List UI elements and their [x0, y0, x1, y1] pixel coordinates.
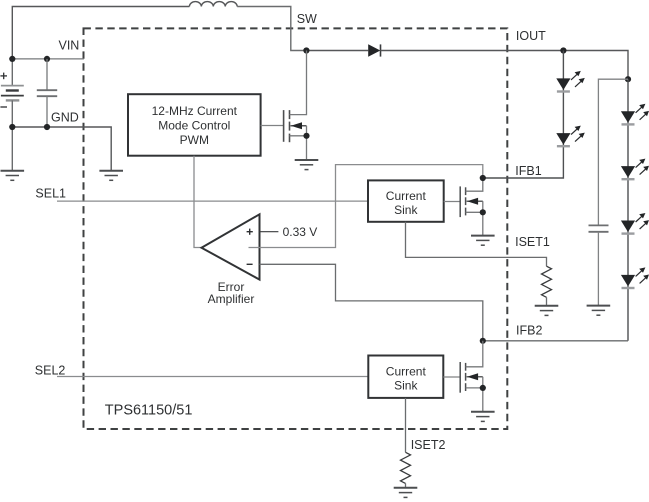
- wire IFB2: [483, 340, 628, 342]
- wire diode cathode to IOUT rail: [381, 51, 629, 80]
- svg-text:Current: Current: [386, 364, 427, 378]
- error amp plus sign: [247, 229, 253, 235]
- svg-text:Mode Control: Mode Control: [158, 119, 230, 133]
- wire M1 drain to SW: [290, 51, 307, 115]
- error amp minus sign: [247, 263, 253, 265]
- wire 0.33 V reference: [260, 231, 279, 233]
- node C1 GND: [44, 124, 50, 130]
- node IFB2: [480, 338, 486, 344]
- svg-text:VIN: VIN: [59, 38, 80, 52]
- LED D4: [621, 104, 649, 125]
- svg-text:12-MHz Current: 12-MHz Current: [152, 104, 238, 118]
- wire M2 drain to IFB1 node: [466, 178, 483, 191]
- battery plus sign: [0, 73, 7, 80]
- svg-text:PWM: PWM: [180, 133, 209, 147]
- M3 body arrow: [467, 376, 483, 378]
- wire M3 drain to IFB2 node: [466, 341, 483, 367]
- node SW junction: [303, 47, 309, 53]
- inductor L1: [189, 2, 237, 7]
- capacitor C1: [46, 59, 48, 90]
- wire PWM gate drive: [261, 125, 284, 127]
- wire inductor to SW pin: [237, 7, 306, 51]
- svg-text:Sink: Sink: [394, 203, 418, 217]
- ground R1: [535, 306, 559, 316]
- ground for C2: [587, 306, 611, 316]
- wire M1 source to ground: [290, 136, 307, 160]
- svg-text:GND: GND: [51, 111, 79, 125]
- capacitor C2: [589, 224, 609, 226]
- svg-text:IOUT: IOUT: [516, 29, 546, 43]
- ground M2 source: [471, 236, 495, 246]
- wire R1 to ground: [546, 297, 548, 305]
- ground battery: [1, 171, 25, 181]
- M2 body arrow: [467, 200, 483, 202]
- svg-text:SW: SW: [297, 12, 317, 26]
- svg-text:TPS61150/51: TPS61150/51: [105, 403, 193, 419]
- wire top rail from battery to inductor: [12, 7, 189, 59]
- wire SW node to diode anode: [306, 50, 368, 52]
- svg-text:ISET1: ISET1: [515, 235, 550, 249]
- node C1 VIN: [44, 56, 50, 62]
- op-amp U1 error amplifier: [202, 214, 260, 279]
- node M1 source body tie: [303, 133, 309, 139]
- wire SEL1: [57, 200, 368, 202]
- wire output capacitor branch: [598, 79, 628, 225]
- wire ISET2: [405, 398, 407, 452]
- LED D3: [556, 126, 585, 147]
- node IFB1: [480, 175, 486, 181]
- LED D7: [621, 267, 649, 288]
- wire M2 source to ground: [466, 212, 483, 235]
- svg-text:Sink: Sink: [394, 378, 418, 392]
- wire LED string 2: [627, 79, 629, 341]
- M1 body arrow: [291, 125, 307, 127]
- diode D1: [368, 44, 380, 56]
- ground M3 source: [471, 412, 495, 422]
- wire SEL2: [57, 376, 368, 378]
- wire current sink 1 gate: [444, 201, 461, 203]
- wire current sink 2 gate: [443, 376, 460, 378]
- LED D5: [621, 159, 649, 180]
- node battery VIN: [9, 56, 15, 62]
- battery V1: [11, 59, 13, 86]
- wire LED string 1: [483, 51, 564, 179]
- svg-text:IFB1: IFB1: [515, 164, 541, 178]
- wire GND: [12, 127, 111, 170]
- transistor M3 current sink 2: [460, 362, 465, 393]
- svg-text:SEL1: SEL1: [35, 186, 66, 200]
- current sink block 2: [368, 356, 443, 398]
- svg-text:ISET2: ISET2: [411, 438, 446, 452]
- ground R2: [394, 488, 418, 498]
- current sink block 1: [368, 180, 444, 221]
- ground M1 source: [295, 160, 319, 170]
- svg-text:SEL2: SEL2: [35, 363, 66, 377]
- resistor R1 ISET1: [542, 266, 552, 297]
- wire R2 to ground: [405, 483, 407, 487]
- svg-text:IFB2: IFB2: [516, 323, 542, 337]
- ground GND pin: [99, 171, 123, 181]
- wire M3 source to ground: [466, 388, 483, 412]
- wire PWM output to error amplifier: [194, 156, 202, 248]
- wire ISET1: [406, 222, 547, 266]
- IC boundary dashed box TPS61150/51: [84, 28, 508, 429]
- svg-text:Current: Current: [386, 189, 427, 203]
- battery minus sign: [0, 106, 7, 108]
- svg-text:Amplifier: Amplifier: [208, 292, 255, 306]
- wire feedback IFB1 to error amplifier: [249, 165, 483, 248]
- wire error amp inverting input to IFB2: [260, 264, 483, 341]
- wire capacitor C2 to ground: [597, 232, 599, 305]
- node M2 source body tie: [480, 209, 486, 215]
- LED D6: [621, 213, 649, 234]
- transistor M2 current sink 1: [460, 186, 465, 217]
- transistor M1 power switch: [284, 110, 290, 142]
- resistor R2 ISET2: [401, 452, 411, 483]
- LED D2: [556, 71, 585, 92]
- node battery GND: [9, 124, 15, 130]
- PWM control block: [128, 94, 261, 156]
- svg-text:0.33 V: 0.33 V: [283, 225, 318, 239]
- node IOUT / LED string 1 top: [560, 47, 566, 53]
- wire VIN: [12, 58, 84, 60]
- node output capacitor branch: [625, 76, 631, 82]
- node M3 source body tie: [480, 385, 486, 391]
